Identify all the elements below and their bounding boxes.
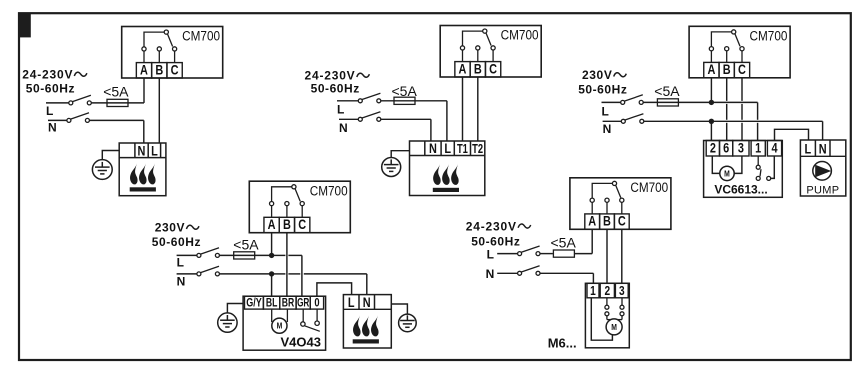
svg-text:N: N xyxy=(339,121,348,135)
svg-text:N: N xyxy=(138,143,146,159)
svg-text:<5A: <5A xyxy=(551,235,577,251)
svg-text:L: L xyxy=(348,295,355,311)
svg-text:<5A: <5A xyxy=(103,83,129,99)
svg-text:C: C xyxy=(489,61,497,77)
svg-text:1: 1 xyxy=(590,284,596,298)
svg-text:B: B xyxy=(474,61,482,77)
svg-text:24-230V: 24-230V xyxy=(466,220,517,234)
svg-text:B: B xyxy=(283,217,291,233)
svg-text:PUMP: PUMP xyxy=(806,184,839,196)
svg-text:N: N xyxy=(177,275,186,289)
svg-text:CM700: CM700 xyxy=(182,28,220,44)
svg-text:N: N xyxy=(363,295,371,311)
svg-text:1: 1 xyxy=(755,140,761,156)
svg-text:M: M xyxy=(277,321,283,331)
svg-text:VC6613...: VC6613... xyxy=(714,183,767,197)
svg-text:L: L xyxy=(177,255,184,269)
svg-text:N: N xyxy=(48,121,57,135)
svg-text:3: 3 xyxy=(619,284,625,298)
svg-text:T2: T2 xyxy=(472,143,483,157)
svg-text:M: M xyxy=(724,169,730,179)
svg-text:A: A xyxy=(140,62,148,78)
svg-text:B: B xyxy=(603,213,611,229)
svg-text:A: A xyxy=(707,62,715,78)
svg-text:2: 2 xyxy=(710,140,716,156)
svg-text:24-230V: 24-230V xyxy=(22,68,73,82)
svg-text:0: 0 xyxy=(314,297,319,310)
svg-text:<5A: <5A xyxy=(233,237,259,253)
svg-text:C: C xyxy=(618,213,626,229)
svg-text:A: A xyxy=(459,61,467,77)
svg-text:50-60Hz: 50-60Hz xyxy=(578,83,627,97)
svg-text:C: C xyxy=(171,62,179,78)
svg-text:N: N xyxy=(486,267,495,281)
svg-text:50-60Hz: 50-60Hz xyxy=(471,235,520,249)
svg-text:A: A xyxy=(268,217,276,233)
svg-text:N: N xyxy=(429,141,437,157)
svg-text:B: B xyxy=(155,62,163,78)
svg-text:M: M xyxy=(611,322,617,332)
svg-text:C: C xyxy=(298,217,306,233)
svg-text:CM700: CM700 xyxy=(750,28,788,44)
svg-text:230V: 230V xyxy=(582,68,612,82)
svg-text:<5A: <5A xyxy=(654,83,680,99)
svg-text:V4O43: V4O43 xyxy=(280,334,320,349)
svg-text:50-60Hz: 50-60Hz xyxy=(26,82,75,96)
svg-text:3: 3 xyxy=(738,140,744,156)
svg-text:B: B xyxy=(723,62,731,78)
svg-text:A: A xyxy=(588,213,596,229)
svg-text:CM700: CM700 xyxy=(310,182,348,198)
svg-text:M6...: M6... xyxy=(548,336,577,351)
svg-text:4: 4 xyxy=(771,140,777,156)
svg-text:L: L xyxy=(151,143,158,159)
svg-text:BR: BR xyxy=(282,297,295,310)
svg-text:BL: BL xyxy=(266,297,278,310)
svg-text:50-60Hz: 50-60Hz xyxy=(152,235,201,249)
svg-text:G/Y: G/Y xyxy=(246,296,261,310)
svg-text:T1: T1 xyxy=(457,143,468,157)
svg-text:L: L xyxy=(337,103,344,117)
svg-text:CM700: CM700 xyxy=(630,179,668,195)
svg-text:50-60Hz: 50-60Hz xyxy=(311,82,360,96)
svg-text:L: L xyxy=(804,141,811,157)
svg-text:L: L xyxy=(602,105,609,119)
svg-text:L: L xyxy=(487,248,494,262)
svg-text:230V: 230V xyxy=(155,221,185,235)
svg-text:L: L xyxy=(444,141,451,157)
svg-text:N: N xyxy=(819,141,827,157)
svg-text:6: 6 xyxy=(723,140,729,156)
svg-text:GR: GR xyxy=(297,297,310,310)
svg-text:24-230V: 24-230V xyxy=(305,69,356,83)
svg-text:N: N xyxy=(603,122,612,136)
svg-text:L: L xyxy=(46,104,53,118)
svg-text:2: 2 xyxy=(604,284,610,298)
svg-text:CM700: CM700 xyxy=(501,27,539,43)
svg-text:C: C xyxy=(738,62,746,78)
